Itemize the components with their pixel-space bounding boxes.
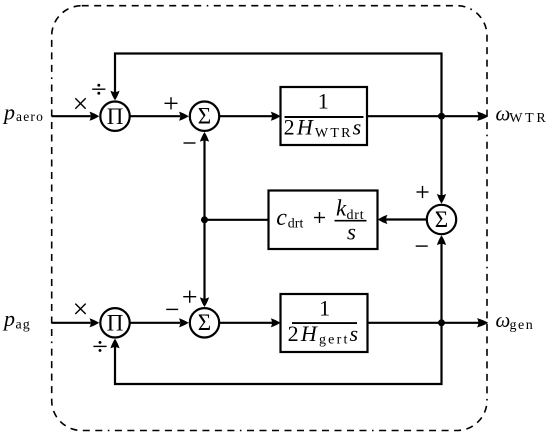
svg-text:ag: ag (16, 317, 31, 332)
node label x (row1) (75, 98, 85, 108)
svg-text:p: p (2, 100, 15, 125)
svg-text:Σ: Σ (198, 104, 211, 129)
multiplier PI2 (100, 308, 129, 337)
label + (SUM2 top input) (183, 291, 196, 303)
svg-text:s: s (347, 219, 356, 244)
wire bus up to SUM1 (203, 137, 205, 220)
wire SUM2 to block gert (220, 322, 273, 324)
node dot on omega_gen wire (438, 319, 445, 326)
wire PI1 to SUM1 (131, 115, 181, 117)
wire drivetrain block to vertical bus (205, 219, 269, 221)
node label divide (row1) (92, 84, 105, 95)
wire SUM3 to drivetrain block (386, 218, 427, 220)
block c_drt + k_drt/s (269, 191, 378, 250)
label - (SUM1 bottom input) (184, 142, 196, 144)
svg-text:Π: Π (107, 104, 124, 129)
node label x (row2) (75, 304, 85, 314)
wire block WTR to output (367, 115, 483, 117)
top feedback wire to PI1 (115, 54, 442, 117)
svg-text:ω: ω (496, 308, 511, 332)
svg-text:WTR: WTR (509, 111, 548, 126)
svg-text:drt: drt (288, 216, 304, 231)
label - (SUM3 bottom input) (416, 245, 428, 247)
wire SUM1 to block WTR (220, 115, 273, 117)
wire node to SUM3 top (440, 116, 442, 199)
svg-text:ω: ω (496, 102, 511, 126)
wire bus down to SUM2 (203, 220, 205, 302)
label + (SUM3 top input) (417, 186, 429, 198)
svg-text:Π: Π (107, 311, 124, 336)
summer SUM1 (190, 102, 219, 131)
svg-text:1: 1 (319, 295, 330, 320)
wire block gert to output (368, 322, 484, 324)
bottom feedback wire to PI2 (115, 323, 442, 384)
node dot on drivetrain wire (201, 216, 208, 223)
svg-text:gen: gen (510, 318, 535, 333)
wire input p_ag (52, 322, 91, 324)
svg-text:c: c (276, 205, 287, 231)
wire PI2 to SUM2 (131, 322, 181, 324)
summer SUM3 (427, 205, 456, 234)
node dot on omega_WTR wire (438, 113, 445, 120)
dash-dot rounded border frame (52, 6, 487, 431)
block 1/(2H_gert s) (281, 294, 368, 352)
svg-text:Σ: Σ (198, 310, 211, 335)
svg-text:Σ: Σ (435, 207, 448, 232)
node label divide (row2) (93, 341, 106, 352)
label + (SUM1 left input) (165, 97, 178, 109)
svg-text:aero: aero (16, 109, 44, 124)
svg-text:p: p (2, 306, 15, 331)
multiplier PI1 (100, 102, 129, 131)
summer SUM2 (190, 308, 219, 337)
label - (SUM2 left input) (166, 308, 178, 310)
wire input p_aero (52, 115, 91, 117)
wire node to SUM3 bottom (440, 240, 442, 323)
svg-text:1: 1 (318, 89, 329, 114)
block 1/(2H_WTR s) (281, 87, 368, 145)
svg-text:k: k (336, 196, 347, 221)
